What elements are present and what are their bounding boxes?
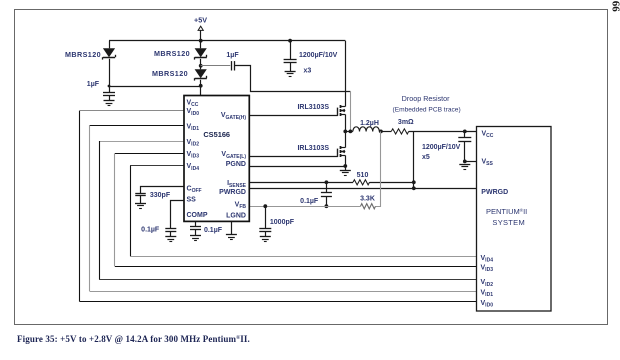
pin label LGND: [226, 212, 246, 219]
wire VID1 top: [90, 125, 185, 127]
svg-text:3.3K: 3.3K: [360, 196, 375, 203]
wire VCC link: [109, 86, 201, 88]
node droop cap top: [325, 180, 329, 184]
+5V arrow terminal: [198, 26, 203, 41]
ground input cap: [285, 72, 296, 77]
pin label system VID1: [481, 290, 494, 299]
capacitor 0.1uF (COMP): [190, 227, 201, 236]
svg-text:MBRS120: MBRS120: [152, 69, 188, 78]
svg-text:3mΩ: 3mΩ: [398, 119, 414, 126]
label 0.1uF (COMP): [204, 227, 223, 234]
wire Q2 drain: [345, 131, 347, 147]
+5V label: [194, 15, 207, 24]
wire +5V rail: [109, 40, 345, 42]
capacitor 1uF (bootstrap): [232, 61, 235, 70]
wire L1 to droop: [379, 131, 391, 133]
pin label VID0: [187, 108, 200, 117]
label L1 1.2uH: [360, 120, 379, 127]
wire VID4 bottom: [130, 256, 476, 258]
pin label system VID4: [481, 255, 494, 264]
wire VID2 bottom: [99, 279, 476, 281]
node charge pump: [199, 64, 203, 68]
svg-text:510: 510: [357, 172, 369, 179]
wire droop to system VCC: [409, 131, 477, 133]
label 1uF (bootstrap): [226, 52, 239, 59]
wire drain rail: [345, 41, 347, 107]
wire switch node: [345, 131, 353, 133]
svg-text:1200µF/10V: 1200µF/10V: [422, 144, 461, 151]
svg-text:1000pF: 1000pF: [270, 219, 295, 226]
svg-text:0.1µF: 0.1µF: [204, 227, 223, 234]
wire D2-D3: [200, 59, 202, 70]
wire VID0 bottom: [80, 301, 477, 303]
ground output caps: [459, 165, 470, 170]
svg-text:1µF: 1µF: [226, 52, 239, 59]
capacitor 330pF: [135, 194, 146, 204]
label 3.3K: [360, 196, 375, 203]
pin label VGATE(H): [221, 112, 246, 121]
pin label ISENSE: [227, 180, 247, 189]
pin label system VID2: [481, 279, 494, 288]
label SYSTEM: [492, 218, 525, 227]
pin label COMP: [187, 212, 208, 219]
capacitor 1000pF: [259, 206, 271, 237]
pin label VGATE(L): [221, 151, 246, 160]
wire PWRGD: [249, 188, 476, 190]
wire Q2 source to PGND: [345, 155, 347, 170]
wire VGATE(H): [249, 115, 337, 117]
node bootstrap tap: [349, 130, 353, 134]
wire SS: [171, 201, 185, 229]
wire 3.3K to Vout node (gray): [376, 131, 381, 206]
pin label system VID0: [481, 300, 494, 309]
pin label VFB: [235, 201, 247, 210]
label CS5166: [203, 130, 230, 139]
capacitor 1uF (left): [103, 86, 115, 101]
svg-text:IRL3103S: IRL3103S: [297, 145, 329, 152]
wire Q1 source to node: [345, 114, 347, 131]
wire COFF: [141, 187, 185, 194]
svg-text:PWRGD: PWRGD: [219, 189, 246, 196]
svg-text:330pF: 330pF: [150, 192, 171, 199]
label Q1 IRL3103S: [297, 104, 329, 111]
svg-text:(Embedded PCB trace): (Embedded PCB trace): [393, 106, 461, 113]
node switch (Q1 source): [343, 130, 347, 134]
svg-text:CS5166: CS5166: [203, 130, 230, 139]
diode D1 MBRS120: [103, 48, 116, 59]
label 1200uF/10V x3: [299, 52, 338, 74]
wire VID3 top: [115, 153, 184, 155]
node 1000pF tap: [263, 204, 267, 208]
wire VGATE(L): [249, 156, 337, 158]
diode D3 MBRS120: [195, 69, 207, 80]
label D1 MBRS120: [65, 50, 101, 59]
node PWRGD junction: [412, 186, 416, 190]
block Pentium II system: [477, 127, 552, 312]
wire rail to D2: [200, 41, 202, 49]
resistor 510: [353, 180, 370, 185]
label 510: [357, 172, 369, 179]
op-amp U1 CS5166 body: [184, 96, 249, 222]
wire bootstrap drop (gray): [350, 91, 352, 131]
svg-text:1.2µH: 1.2µH: [360, 120, 379, 127]
transistor Q2 IRL3103S: [338, 146, 346, 157]
svg-text:0.1µF: 0.1µF: [300, 198, 319, 205]
inductor L1 1.2uH: [353, 127, 379, 132]
wire D3 to VCC pin: [200, 80, 202, 96]
wire COMP: [195, 221, 197, 226]
wire PGND: [249, 166, 345, 168]
svg-text:1200µF/10V: 1200µF/10V: [299, 52, 338, 59]
pin label VID4: [187, 163, 200, 172]
ground left 1uF: [104, 101, 115, 106]
label droop resistor: [393, 94, 461, 113]
svg-text:MBRS120: MBRS120: [154, 49, 190, 58]
wire D1 to VCC node: [109, 59, 111, 86]
pin label COFF: [187, 186, 202, 195]
pin label SS: [187, 196, 197, 203]
wire VID4 vertical: [130, 166, 132, 256]
ground SS cap: [165, 237, 176, 242]
label D3 MBRS120: [152, 69, 188, 78]
ground LGND: [226, 235, 237, 240]
label 1000pF: [270, 219, 295, 226]
label 0.1uF (SS): [141, 227, 160, 234]
svg-text:Droop Resistor: Droop Resistor: [402, 94, 451, 103]
wire VID0 vertical: [79, 111, 81, 302]
label Q2 IRL3103S: [297, 145, 329, 152]
svg-text:SYSTEM: SYSTEM: [492, 218, 525, 227]
ground 330pF: [135, 204, 146, 209]
resistor droop 3mohm: [391, 129, 408, 134]
node ISENSE junction: [412, 180, 416, 184]
diode D2 MBRS120: [195, 48, 207, 59]
wire VID4 top: [130, 165, 184, 167]
capacitor 1200uF/10V x5: [458, 131, 471, 161]
node bulk cap tap: [463, 130, 467, 134]
wire VID1 bottom: [90, 291, 477, 293]
svg-text:1µF: 1µF: [87, 81, 100, 88]
wire LGND: [231, 221, 233, 234]
wire VID3 bottom: [115, 266, 477, 268]
wire rail to D1: [109, 41, 111, 49]
label D2 MBRS120: [154, 49, 190, 58]
pin label PWRGD: [219, 189, 246, 196]
label 1200uF/10V x5: [422, 144, 461, 161]
wire VFB (gray): [249, 206, 360, 208]
caption figure 35: [17, 334, 250, 344]
node VCC pin junction: [199, 84, 203, 88]
svg-text:LGND: LGND: [226, 212, 246, 219]
node left cap junction: [108, 85, 111, 88]
pin label system VSS: [482, 159, 494, 168]
capacitor 0.1uF (SS): [165, 229, 176, 237]
wire VID2 vertical: [99, 141, 101, 280]
wire VID1 vertical: [89, 126, 91, 292]
label 0.1uF (droop): [300, 198, 319, 205]
resistor 3.3K: [361, 204, 376, 209]
capacitor 1200uF/10V x3: [284, 41, 297, 71]
label 1uF (left): [87, 81, 100, 88]
label 330pF: [150, 192, 171, 199]
svg-text:+5V: +5V: [194, 15, 207, 24]
svg-text:0.1µF: 0.1µF: [141, 227, 160, 234]
pin label VID1: [187, 123, 200, 132]
wire remote sense drop: [413, 131, 415, 188]
label 3mohm: [398, 119, 414, 126]
transistor Q1 IRL3103S: [338, 105, 346, 116]
pin label system VID3: [481, 265, 494, 274]
pin label system VCC: [482, 130, 494, 139]
ground COMP cap: [190, 236, 201, 241]
svg-text:COMP: COMP: [187, 212, 208, 219]
wire VSS to system: [465, 161, 477, 163]
svg-text:IRL3103S: IRL3103S: [297, 104, 329, 111]
svg-text:PGND: PGND: [226, 161, 246, 168]
wire VID2 top: [99, 141, 184, 143]
node PGND: [343, 164, 347, 168]
ground 1000pF: [260, 237, 271, 242]
node droop cap bottom: [325, 204, 329, 208]
svg-text:MBRS120: MBRS120: [65, 50, 101, 59]
svg-text:SS: SS: [187, 196, 197, 203]
wire 510 to sense node: [370, 182, 414, 184]
node VSS junction: [463, 160, 467, 164]
node 1200uF x3 tap: [288, 39, 292, 43]
wire ISENSE: [249, 182, 353, 184]
page number 66 (rotated): [610, 1, 620, 13]
wire VID0 top: [80, 110, 185, 112]
svg-text:Figure 35: +5V to +2.8V @ 14.2: Figure 35: +5V to +2.8V @ 14.2A for 300 …: [17, 334, 250, 344]
wire VID3 vertical: [114, 154, 116, 267]
pin label PGND: [226, 161, 246, 168]
wire bootstrap path: [235, 66, 351, 92]
svg-text:PWRGD: PWRGD: [481, 189, 508, 196]
pin label VID3: [187, 151, 200, 160]
ground power: [340, 171, 351, 176]
pin label system PWRGD: [481, 189, 508, 196]
label PENTIUM II: [486, 207, 527, 216]
capacitor 0.1uF (droop): [321, 182, 332, 206]
wire node to C3: [201, 65, 231, 67]
svg-text:x5: x5: [422, 154, 430, 161]
svg-text:66: 66: [610, 1, 620, 13]
pin label VCC: [187, 99, 199, 108]
node Vout sense (pre-droop): [379, 130, 383, 134]
node +5V feed: [199, 39, 203, 43]
pin label VID2: [187, 139, 200, 148]
svg-text:x3: x3: [304, 68, 312, 75]
